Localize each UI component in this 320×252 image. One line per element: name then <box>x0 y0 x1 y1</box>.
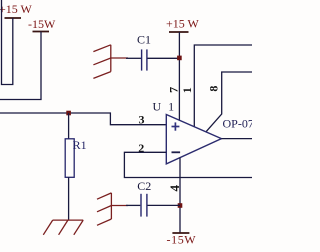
wire ground to C1 left plate <box>126 57 141 59</box>
svg-text:+15 W: +15 W <box>166 17 200 31</box>
svg-text:C2: C2 <box>137 179 151 193</box>
wire output from apex to right edge <box>221 138 252 140</box>
capacitor C2 plates <box>141 194 147 217</box>
minus marker (inverting input) <box>172 151 181 153</box>
ground below R1 <box>43 220 83 235</box>
ground top-right (rotated, for C1) <box>93 45 128 79</box>
wire pin 1 up and right to edge <box>194 45 252 127</box>
wire C1 right plate to +15 node <box>148 57 180 59</box>
plus marker (non-inverting input) <box>172 122 180 130</box>
wire from +15W bar down, left, up to top edge <box>2 0 13 85</box>
wire ground to C2 left plate <box>126 204 140 206</box>
svg-text:R1: R1 <box>73 138 87 152</box>
resistor R1 body <box>65 139 74 178</box>
junction node at C1/+15/pin7 <box>177 56 182 61</box>
svg-text:1: 1 <box>180 87 194 93</box>
svg-text:7: 7 <box>166 87 180 93</box>
svg-text:-15W: -15W <box>167 233 197 247</box>
wire +15W bar down to op-amp pin 7 <box>178 32 180 121</box>
svg-text:+15 W: +15 W <box>0 2 33 16</box>
wire C2 right plate to pin4 node <box>148 204 181 206</box>
power -15W rail top-left: bar <box>33 31 50 33</box>
ground bottom-right (rotated, for C2) <box>97 193 128 225</box>
power +15W rail top-left: bar <box>5 17 22 19</box>
wire R1 bottom to ground <box>68 177 70 220</box>
svg-text:3: 3 <box>139 113 145 127</box>
power -15W rail bottom: bar <box>172 232 189 234</box>
wire bus to R1 top <box>68 113 70 139</box>
wire from -15W bar down then left to edge <box>0 32 41 100</box>
svg-text:-15W: -15W <box>28 17 56 31</box>
junction node at C2/pin4 <box>178 203 183 208</box>
wire pin 4 down to -15W <box>179 158 181 233</box>
wire main bus to pin 3 (+ input) <box>0 113 166 125</box>
power +15W rail above op-amp: bar <box>169 31 189 33</box>
junction node at R1 tap <box>66 111 71 116</box>
capacitor C1 plates <box>142 49 147 70</box>
svg-text:C1: C1 <box>137 33 151 47</box>
wire pin 2 loop: inverting input to right edge <box>124 152 252 177</box>
svg-text:OP-07: OP-07 <box>223 117 253 131</box>
wire pin 8 from right edge down and slant to op-amp <box>206 72 252 132</box>
op-amp U1 triangle <box>166 115 221 164</box>
svg-text:8: 8 <box>206 86 220 92</box>
svg-text:U 1: U 1 <box>153 99 177 113</box>
